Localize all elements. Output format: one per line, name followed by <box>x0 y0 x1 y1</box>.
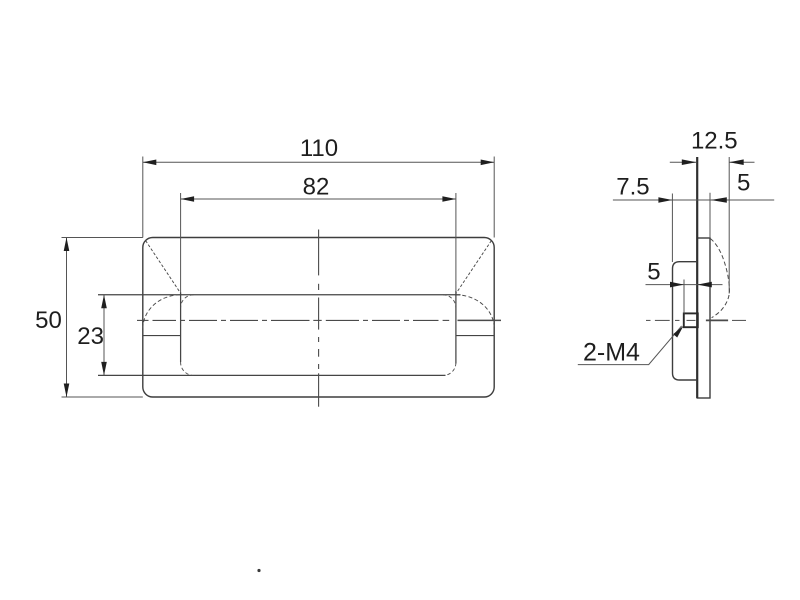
dimension 5 (M4 offset): arrow left (outside, pointing right) <box>670 282 684 288</box>
svg-text:2-M4: 2-M4 <box>583 338 640 366</box>
dimension 23: arrow bottom <box>101 362 107 376</box>
dimension 23: dimension line <box>103 295 105 376</box>
dimension 12.5: arrow left (outside, pointing right) <box>682 159 697 165</box>
leader arrowhead <box>673 326 683 338</box>
svg-text:23: 23 <box>77 323 104 350</box>
svg-text:110: 110 <box>300 135 338 162</box>
dimension 82: dimension line <box>181 198 456 200</box>
outer flange outline (front view) <box>143 238 494 398</box>
dimension 82: arrow right <box>442 196 456 202</box>
dimension 110: extension line left <box>142 157 144 238</box>
stray dot <box>257 569 260 572</box>
dimension 5 (top): arrow (inside at left end, pointing left) <box>711 197 727 202</box>
dimension 50: arrow bottom <box>64 384 70 398</box>
dimension 110: dimension line <box>143 161 494 163</box>
dimension 110: arrow right <box>481 160 495 166</box>
inner recess dashed fillet bottom-right <box>443 363 456 376</box>
svg-text:5: 5 <box>737 170 750 197</box>
inner recess opening: left edge <box>180 292 182 362</box>
inner recess opening: right edge <box>455 291 457 364</box>
scoop fillet arc right <box>456 295 494 329</box>
flange plate thick left edge <box>696 157 698 398</box>
inner recess dashed fillet bottom-left <box>181 362 194 375</box>
dimension 110: arrow left <box>143 160 157 166</box>
svg-text:7.5: 7.5 <box>616 174 649 201</box>
dimension 5 (top): extension line at plate right edge <box>709 193 711 238</box>
chamfer line top-left <box>146 241 181 294</box>
dimension 82: extension line right <box>455 193 457 293</box>
dimension 5 (M4 offset): dimension line <box>646 284 723 286</box>
dimension 82: arrow left <box>181 196 195 202</box>
inner recess dashed fillet top-left <box>181 295 194 308</box>
dimension 12.5: dimension line right tail <box>729 161 754 163</box>
dimension 50: dimension line <box>66 238 68 398</box>
svg-text:12.5: 12.5 <box>691 127 738 154</box>
dimension 82: extension line left <box>180 193 182 293</box>
svg-text:5: 5 <box>647 259 660 286</box>
dimension 50: arrow top <box>64 238 70 252</box>
M4 tapped hole square <box>684 313 698 327</box>
flange plate (side view) <box>697 238 710 398</box>
horizontal centerline (side view) <box>646 319 746 321</box>
dimension 12.5: extension line left (top of thick edge serves) <box>728 157 730 294</box>
leader line for 2-M4 <box>578 326 682 365</box>
dimension 12.5: arrow right (outside, pointing left) <box>729 159 744 165</box>
dimension 12.5: dimension line left tail <box>670 161 697 163</box>
inner recess opening: bottom edge (with 23-dim extension) <box>98 374 446 376</box>
dimension 110: extension line right <box>493 157 495 238</box>
chamfer line top-right <box>456 241 491 294</box>
dimension 5 (M4 offset): extension line <box>683 280 685 314</box>
ledge line left <box>143 335 181 337</box>
inner recess opening: top edge (with 23-dim extension) <box>98 294 461 296</box>
dimension 5 (M4 offset): arrow right (outside, pointing left) <box>697 282 712 288</box>
vertical centerline (front view) <box>318 230 320 407</box>
dimension 23: arrow top <box>101 295 107 309</box>
scoop fillet arc left <box>143 295 181 329</box>
dimension 7.5/5 shared dimension line <box>613 199 774 201</box>
dimension 7.5: arrow left (outside, pointing right) <box>658 197 672 203</box>
svg-text:82: 82 <box>303 174 330 201</box>
dimension 50: extension line top <box>62 237 143 239</box>
cup body (side view) <box>673 262 698 380</box>
horizontal centerline (front view) <box>137 319 501 321</box>
dimension 50: extension line bottom <box>62 396 143 398</box>
dimension 7.5: extension line left <box>671 194 673 263</box>
inner recess dashed fillet top-right <box>443 295 456 308</box>
grip lip profile curve <box>710 239 729 318</box>
ledge line right <box>456 335 494 337</box>
svg-text:50: 50 <box>35 307 62 334</box>
